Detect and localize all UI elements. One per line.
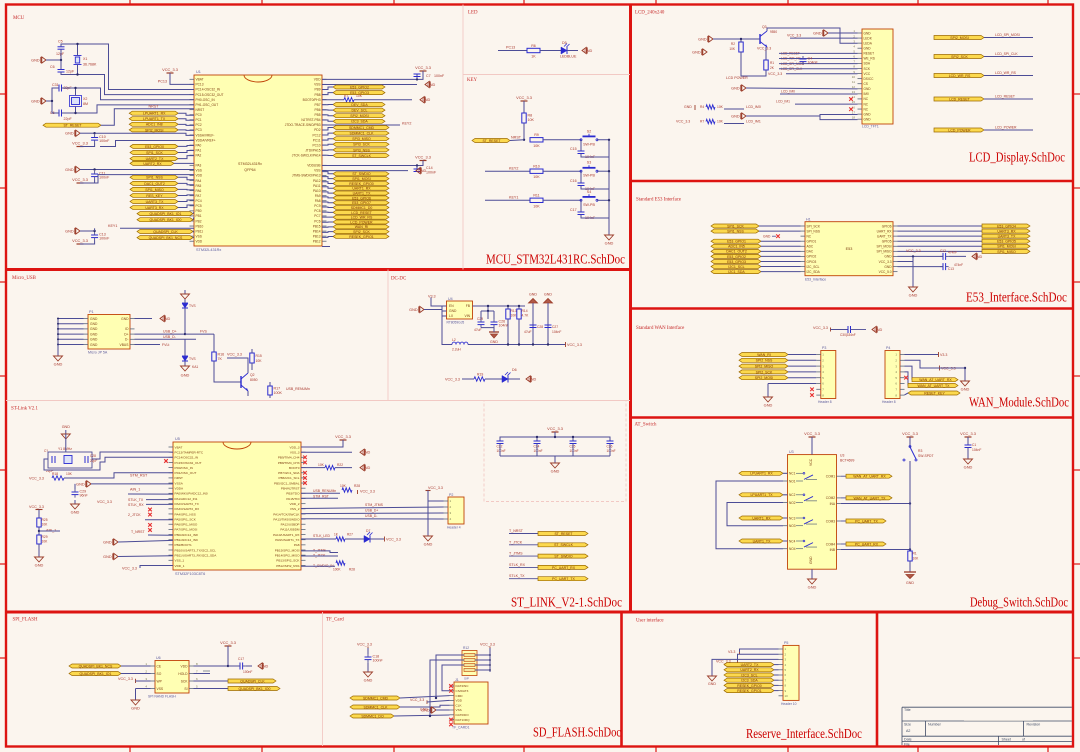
svg-text:Header 10: Header 10 — [781, 702, 797, 706]
svg-text:I2C_SDA: I2C_SDA — [807, 270, 821, 274]
svg-text:10K: 10K — [356, 94, 363, 98]
partition line bottom row divider 2 — [876, 612, 879, 746]
svg-text:PA2: PA2 — [196, 154, 202, 158]
svg-text:GND: GND — [906, 581, 914, 585]
GND bottom lcd — [742, 113, 746, 119]
svg-text:LCD_POWER: LCD_POWER — [995, 126, 1017, 130]
svg-text:NO3: NO3 — [789, 524, 796, 528]
svg-text:GND: GND — [90, 343, 98, 347]
svg-text:GPIO6: GPIO6 — [882, 224, 892, 228]
svg-text:SPI_SCK: SPI_SCK — [807, 224, 821, 228]
svg-text:SPI3_SCK: SPI3_SCK — [353, 143, 370, 147]
svg-text:PC13: PC13 — [158, 80, 167, 84]
svg-text:INB: INB — [830, 548, 835, 552]
svg-text:V3.3: V3.3 — [940, 353, 947, 357]
svg-text:GND: GND — [864, 117, 872, 121]
capacitor C26 104nF — [491, 321, 498, 323]
svg-text:C7: C7 — [426, 74, 431, 78]
ports clusterD — [333, 172, 389, 176]
svg-text:10K: 10K — [533, 144, 540, 148]
crystal Y1 group — [65, 430, 67, 434]
LED D7 stlink — [364, 536, 370, 543]
svg-text:ST_RESET: ST_RESET — [554, 532, 573, 536]
svg-text:SPI_FLASH: SPI_FLASH — [13, 618, 38, 623]
svg-text:GND: GND — [90, 317, 98, 321]
partition line bottom row divider 1 — [620, 612, 623, 746]
svg-text:GND: GND — [90, 332, 98, 336]
svg-text:LCD_IM0: LCD_IM0 — [746, 105, 761, 109]
svg-text:LEDA: LEDA — [864, 41, 873, 45]
power VCC_3.3 right mid — [420, 160, 427, 162]
WAN left ports — [739, 353, 788, 357]
svg-text:PC14-OSC32_IN: PC14-OSC32_IN — [196, 88, 221, 92]
svg-text:9550: 9550 — [770, 30, 777, 34]
svg-text:10K: 10K — [66, 472, 73, 476]
svg-text:SDMMC1_D0: SDMMC1_D0 — [351, 206, 373, 210]
border ruler ticks top — [129, 0, 131, 5]
svg-text:DC-DC: DC-DC — [391, 277, 406, 282]
svg-text:KEY2: KEY2 — [402, 122, 411, 126]
svg-text:VCC_3.3: VCC_3.3 — [757, 47, 771, 51]
svg-text:PC_UART_RX: PC_UART_RX — [855, 542, 879, 546]
svg-text:VSS: VSS — [314, 83, 320, 87]
svg-text:STLK_RX: STLK_RX — [509, 563, 526, 567]
dashed cap bank — [552, 431, 559, 433]
svg-text:NRST: NRST — [196, 108, 205, 112]
svg-text:SPI2_SCK: SPI2_SCK — [951, 55, 968, 59]
svg-text:GND: GND — [731, 115, 740, 119]
svg-text:COM1: COM1 — [826, 475, 835, 479]
svg-text:11: 11 — [852, 80, 855, 84]
svg-text:12pF: 12pF — [56, 52, 65, 56]
svg-text:VCC_3.3: VCC_3.3 — [122, 567, 137, 571]
port SPI2_SCK lcd — [934, 55, 984, 59]
svg-text:I2C3_SCL: I2C3_SCL — [741, 673, 757, 677]
svg-text:CMD: CMD — [456, 694, 464, 698]
svg-text:E53_GPIO2: E53_GPIO2 — [727, 255, 746, 259]
svg-text:GND: GND — [35, 563, 44, 568]
svg-text:NC4: NC4 — [789, 539, 796, 543]
svg-text:Q3: Q3 — [762, 25, 767, 29]
svg-text:NC3: NC3 — [789, 516, 796, 520]
svg-text:C15: C15 — [570, 147, 577, 151]
svg-text:STM_JTMS: STM_JTMS — [365, 503, 384, 507]
capacitor C29L — [74, 484, 76, 489]
switch chip U3 — [788, 455, 837, 570]
svg-text:I2C1_SDA: I2C1_SDA — [728, 270, 745, 274]
svg-text:VCC_3.3: VCC_3.3 — [220, 640, 236, 645]
svg-text:ADC1_IN5: ADC1_IN5 — [728, 245, 745, 249]
svg-text:GND: GND — [884, 265, 892, 269]
ports TF — [350, 696, 400, 700]
svg-text:PH0-OSC_IN: PH0-OSC_IN — [196, 98, 216, 102]
svg-text:E53_GPIO2: E53_GPIO2 — [350, 85, 369, 89]
svg-text:LCD_IM1: LCD_IM1 — [776, 100, 790, 104]
GND bottom U3 — [811, 569, 813, 575]
svg-text:GND: GND — [449, 309, 457, 313]
svg-text:USB_RENUMn: USB_RENUMn — [286, 387, 310, 391]
svg-text:PB7: PB7 — [314, 103, 320, 107]
svg-text:10K: 10K — [511, 314, 518, 318]
TVS diode D1 top — [182, 302, 188, 304]
svg-text:PA11/USBDM: PA11/USBDM — [280, 528, 300, 532]
svg-text:PC12: PC12 — [313, 133, 321, 137]
capacitor C11 — [91, 173, 98, 175]
svg-text:PC9: PC9 — [314, 204, 320, 208]
ground below D2 — [184, 361, 186, 366]
svg-text:STLK_RX: STLK_RX — [128, 503, 144, 507]
svg-text:GPIO2: GPIO2 — [807, 255, 817, 259]
svg-text:47uF: 47uF — [524, 330, 532, 334]
svg-text:8050: 8050 — [250, 378, 258, 382]
svg-text:T_JTCK: T_JTCK — [509, 540, 523, 544]
svg-text:PB10: PB10 — [196, 224, 204, 228]
port QUADSPI_CLK flash — [194, 680, 229, 682]
svg-text:SPI2_MISO: SPI2_MISO — [755, 365, 774, 369]
wire GND right — [135, 318, 153, 320]
svg-text:SPI1_SCK: SPI1_SCK — [727, 224, 744, 228]
svg-text:SCK: SCK — [181, 679, 189, 683]
svg-text:SCK: SCK — [864, 67, 871, 71]
svg-text:100nF: 100nF — [607, 449, 616, 453]
capacitor C6 — [58, 69, 65, 71]
TF card socket J1 — [454, 682, 488, 724]
svg-text:MCU: MCU — [13, 16, 25, 21]
svg-text:SPI_MOSI: SPI_MOSI — [876, 245, 891, 249]
svg-text:VCC_3.3: VCC_3.3 — [410, 698, 424, 702]
svg-text:PA3/USART2_RX: PA3/USART2_RX — [175, 507, 200, 511]
svg-text:GND: GND — [90, 338, 98, 342]
svg-text:GND: GND — [884, 255, 892, 259]
svg-text:VDD: VDD — [456, 699, 463, 703]
svg-text:Q2: Q2 — [250, 373, 255, 377]
svg-text:100nF: 100nF — [426, 171, 437, 175]
ground for X2 — [42, 98, 46, 104]
svg-text:PC15/OSC32_OUT: PC15/OSC32_OUT — [175, 461, 202, 465]
partition line LCD bottom — [631, 180, 1074, 182]
ground GND group3 — [76, 228, 80, 234]
svg-text:H1: H1 — [806, 218, 811, 222]
svg-text:E53_GPIO6: E53_GPIO6 — [352, 196, 371, 200]
svg-text:Revision: Revision — [1027, 723, 1041, 727]
svg-text:GND: GND — [181, 373, 190, 378]
port LPUART1_RX — [129, 111, 178, 115]
wires caps — [480, 311, 482, 319]
svg-text:R28: R28 — [349, 568, 355, 572]
svg-text:T_JTMS: T_JTMS — [509, 552, 523, 556]
svg-text:VCC_3.3: VCC_3.3 — [415, 65, 431, 70]
port ST_RESET KEY — [472, 139, 510, 143]
svg-text:GND: GND — [809, 556, 813, 564]
svg-text:DAC1_OUT2: DAC1_OUT2 — [726, 250, 747, 254]
svg-text:GND: GND — [692, 51, 701, 55]
svg-text:PA10: PA10 — [313, 189, 321, 193]
port QUADSPI_BK1_IO0 flash — [194, 688, 229, 690]
svg-text:ST_RESET: ST_RESET — [63, 124, 82, 128]
svg-text:100nF: 100nF — [99, 139, 110, 143]
svg-text:LCD_TFT1: LCD_TFT1 — [862, 125, 879, 129]
svg-text:WAN_AT_UART_TX: WAN_AT_UART_TX — [917, 384, 950, 388]
svg-text:UART2_RX: UART2_RX — [740, 668, 759, 672]
svg-text:CS/DAT3: CS/DAT3 — [456, 689, 469, 693]
svg-text:E53_Interface: E53_Interface — [805, 278, 826, 282]
E53 left ports — [711, 224, 759, 228]
svg-text:10K: 10K — [533, 204, 540, 208]
svg-text:100nF: 100nF — [497, 449, 506, 453]
svg-text:GND: GND — [427, 83, 436, 87]
svg-text:PB1: PB1 — [196, 214, 202, 218]
svg-text:GND: GND — [90, 322, 98, 326]
svg-text:ST_SWDIO: ST_SWDIO — [352, 172, 371, 176]
svg-text:RESET_KEY: RESET_KEY — [924, 391, 945, 395]
svg-text:ADC: ADC — [807, 245, 814, 249]
VCC_3.3 right top — [340, 439, 347, 441]
svg-text:VDDA: VDDA — [175, 487, 185, 491]
svg-text:SDMMC1_CLK: SDMMC1_CLK — [364, 705, 389, 709]
WAN right ports — [905, 366, 913, 380]
caps C12 C13 e53 — [927, 255, 943, 257]
svg-text:Date: Date — [904, 737, 912, 741]
svg-text:RESEK_GPIO1: RESEK_GPIO1 — [349, 235, 374, 239]
svg-text:DEV_SDA: DEV_SDA — [351, 103, 368, 107]
svg-text:10K: 10K — [256, 359, 263, 363]
svg-text:SDMMC1_CMD: SDMMC1_CMD — [363, 696, 389, 700]
svg-text:PB1/ADC12_IN9: PB1/ADC12_IN9 — [175, 538, 198, 542]
svg-text:QUADSPI_BK1_IO0: QUADSPI_BK1_IO0 — [150, 218, 182, 222]
svg-text:EN: EN — [449, 304, 454, 308]
svg-text:QUADSPI_BK1_IO0: QUADSPI_BK1_IO0 — [239, 687, 271, 691]
svg-text:PA11: PA11 — [313, 184, 321, 188]
svg-text:GND: GND — [65, 132, 74, 136]
watermark streak — [964, 720, 1033, 722]
svg-text:PC8: PC8 — [314, 209, 320, 213]
C1 cap right — [965, 436, 972, 438]
partition line vertical main — [629, 5, 632, 613]
svg-text:C17: C17 — [238, 657, 244, 661]
svg-text:LCD_WR_RS: LCD_WR_RS — [995, 71, 1017, 75]
svg-text:LED: LED — [468, 11, 478, 16]
svg-text:Micro JP 5A: Micro JP 5A — [88, 351, 108, 355]
partition line WAN bottom — [631, 416, 1074, 418]
svg-text:PB11: PB11 — [196, 229, 204, 233]
svg-text:JTCK-SWCLK/PA14: JTCK-SWCLK/PA14 — [292, 154, 321, 158]
svg-text:PB2/BOOT1: PB2/BOOT1 — [175, 543, 192, 547]
svg-text:BCT4699: BCT4699 — [840, 459, 854, 463]
wires TF bus vertical — [436, 655, 464, 698]
svg-text:1K: 1K — [531, 55, 536, 59]
svg-text:SDA: SDA — [864, 62, 871, 66]
wires X1 loop — [61, 44, 194, 90]
svg-text:T_NRST: T_NRST — [509, 529, 524, 533]
svg-text:U3: U3 — [789, 450, 794, 454]
svg-text:PA7: PA7 — [196, 194, 202, 198]
svg-text:VCC_3.3: VCC_3.3 — [360, 490, 375, 494]
svg-text:36.768K: 36.768K — [83, 63, 97, 67]
svg-text:PA2/USART2_TX: PA2/USART2_TX — [175, 502, 199, 506]
svg-text:D-: D- — [125, 338, 128, 342]
svg-text:NO4: NO4 — [789, 547, 796, 551]
svg-text:WE_RS: WE_RS — [864, 57, 875, 61]
svg-text:UART2_TX: UART2_TX — [146, 157, 164, 161]
svg-text:STLK_TX: STLK_TX — [128, 498, 144, 502]
svg-text:J1: J1 — [455, 678, 459, 682]
svg-text:LEDBLUE: LEDBLUE — [560, 55, 577, 59]
svg-text:U1: U1 — [196, 70, 201, 74]
svg-text:22pF: 22pF — [64, 117, 73, 121]
svg-text:474nF: 474nF — [954, 263, 963, 267]
svg-text:R16: R16 — [218, 353, 225, 357]
wire VSSA/VDDA — [95, 133, 194, 135]
svg-text:R3: R3 — [918, 449, 922, 453]
svg-text:TF_Card: TF_Card — [326, 618, 344, 623]
svg-text:BOOT0: BOOT0 — [289, 466, 300, 470]
connector P1 Micro USB — [88, 315, 130, 350]
pulldown R1 — [909, 550, 911, 552]
svg-text:QUADSPI_BK1_IO1: QUADSPI_BK1_IO1 — [80, 672, 112, 676]
svg-text:QUADSPI_BK1_NCS: QUADSPI_BK1_NCS — [79, 664, 113, 668]
inductor L2 — [442, 316, 452, 345]
svg-text:GND: GND — [961, 387, 970, 392]
svg-text:VCC_3.3: VCC_3.3 — [906, 249, 921, 253]
svg-text:LCD_SPI_CLK: LCD_SPI_CLK — [995, 52, 1018, 56]
svg-text:P1: P1 — [89, 310, 94, 314]
wires Y1 to chip — [92, 452, 173, 459]
svg-text:R1: R1 — [770, 61, 774, 65]
svg-text:C17: C17 — [570, 208, 577, 212]
svg-text:SPI NAND FLASH: SPI NAND FLASH — [148, 695, 176, 699]
svg-text:SPI3_NSS: SPI3_NSS — [353, 148, 370, 152]
port LCD_POWER lcd — [934, 128, 984, 132]
svg-text:R28: R28 — [354, 484, 360, 488]
svg-text:VCC_3.3: VCC_3.3 — [227, 353, 242, 357]
port E53_GPIO0 — [130, 144, 178, 148]
svg-text:10K: 10K — [717, 105, 724, 109]
svg-text:GND: GND — [708, 682, 716, 686]
svg-text:DSICC: DSICC — [864, 77, 875, 81]
svg-text:ST_SWDIO: ST_SWDIO — [554, 555, 573, 559]
debug crossover wires — [716, 481, 783, 549]
svg-text:AIN_1: AIN_1 — [130, 488, 140, 492]
svg-text:VCC_3.3: VCC_3.3 — [118, 677, 133, 681]
svg-text:GND: GND — [131, 706, 140, 711]
svg-text:VCC_3.3: VCC_3.3 — [676, 120, 690, 124]
svg-text:V3.3: V3.3 — [728, 650, 735, 654]
svg-text:JTDO-TRACE-SWO/PB3: JTDO-TRACE-SWO/PB3 — [285, 123, 321, 127]
svg-text:PB0: PB0 — [196, 209, 202, 213]
ports clusterB — [333, 103, 385, 107]
svg-text:PA7/SPI1_MOSI: PA7/SPI1_MOSI — [175, 528, 198, 532]
svg-text:VCC_3.3: VCC_3.3 — [567, 343, 582, 347]
svg-text:UART_RX: UART_RX — [877, 229, 893, 233]
svg-text:2.2uH: 2.2uH — [452, 348, 461, 352]
svg-text:U4: U4 — [448, 297, 453, 301]
svg-text:R4: R4 — [700, 105, 704, 109]
svg-text:SPI1_NSS: SPI1_NSS — [146, 176, 163, 180]
svg-text:UART3_RX: UART3_RX — [997, 229, 1016, 233]
svg-text:PC_UART_TX: PC_UART_TX — [855, 519, 878, 523]
svg-text:GND: GND — [71, 510, 80, 515]
svg-text:LPUART1_TX: LPUART1_TX — [750, 493, 773, 497]
svg-text:UART2_RX: UART2_RX — [143, 162, 162, 166]
svg-text:GND: GND — [528, 378, 537, 382]
svg-text:PC14/OSC32_IN: PC14/OSC32_IN — [175, 456, 199, 460]
capacitor C15 — [580, 140, 582, 151]
svg-text:GND: GND — [529, 293, 537, 297]
svg-text:Size: Size — [904, 723, 911, 727]
svg-text:FVS: FVS — [200, 330, 207, 334]
pale divider USB/STLINK — [6, 400, 630, 402]
svg-text:GND: GND — [763, 235, 771, 239]
svg-text:10K: 10K — [717, 120, 724, 124]
svg-text:C27: C27 — [552, 325, 558, 329]
svg-text:7K: 7K — [218, 357, 223, 361]
svg-text:A2: A2 — [906, 729, 910, 733]
svg-text:GND: GND — [909, 293, 918, 298]
svg-text:VCC_3.3: VCC_3.3 — [480, 643, 495, 647]
resistor R13 — [506, 309, 510, 319]
svg-text:PA3: PA3 — [196, 164, 202, 168]
svg-text:100K: 100K — [333, 568, 341, 572]
svg-text:PB15/SPI2_MOSI: PB15/SPI2_MOSI — [275, 548, 300, 552]
svg-text:ST_LINK_V2-1.SchDoc: ST_LINK_V2-1.SchDoc — [511, 595, 622, 610]
svg-text:PB4/NJTRST: PB4/NJTRST — [281, 487, 300, 491]
svg-text:VDD: VDD — [196, 240, 203, 244]
svg-text:VCC_3.3: VCC_3.3 — [813, 326, 828, 330]
svg-text:C12: C12 — [940, 249, 946, 253]
svg-text:NC: NC — [864, 102, 869, 106]
svg-text:SPI2_NSS: SPI2_NSS — [756, 359, 773, 363]
port LPUART1_TX — [129, 117, 178, 121]
svg-text:Sheet: Sheet — [1002, 737, 1011, 741]
svg-text:QUADSPI_CLK: QUADSPI_CLK — [240, 679, 265, 683]
svg-text:PB5/I2C1_SMBAL: PB5/I2C1_SMBAL — [274, 481, 300, 485]
WAN right nets — [905, 354, 939, 356]
svg-text:USB_D+: USB_D+ — [365, 509, 378, 513]
svg-text:VCC_3.3: VCC_3.3 — [386, 538, 401, 542]
svg-text:E53_Interface.SchDoc: E53_Interface.SchDoc — [966, 290, 1067, 305]
svg-text:SPI2_MOSI: SPI2_MOSI — [145, 128, 164, 132]
svg-text:GND: GND — [764, 403, 773, 408]
svg-text:L2: L2 — [452, 338, 456, 342]
title block — [902, 706, 1072, 708]
GND CS — [742, 85, 746, 91]
svg-text:47uF: 47uF — [474, 328, 482, 332]
svg-text:VDD: VDD — [196, 174, 203, 178]
svg-text:GND: GND — [551, 469, 560, 474]
svg-text:GND: GND — [362, 451, 371, 455]
svg-text:R7: R7 — [344, 94, 348, 98]
svg-text:R14: R14 — [522, 309, 528, 313]
svg-text:T_NRST: T_NRST — [131, 530, 145, 534]
pullup resistor pack R12 — [462, 651, 477, 676]
svg-text:GND: GND — [31, 100, 40, 104]
svg-text:U6: U6 — [156, 656, 161, 660]
ground DCDC left — [420, 306, 424, 312]
svg-text:NC1: NC1 — [789, 472, 796, 476]
svg-text:RESET: RESET — [864, 52, 875, 56]
svg-text:22pF: 22pF — [90, 459, 97, 463]
resistor R7 BOOT0 — [322, 99, 344, 101]
svg-text:NO1: NO1 — [789, 479, 796, 483]
power VCC_3.3 KEY — [521, 100, 528, 102]
wire FB loop top — [473, 305, 526, 307]
port QUADSPI_CLK — [137, 230, 193, 234]
capacitor C25 bank — [570, 440, 577, 442]
wires X2 loop — [46, 88, 59, 101]
svg-text:SW-PB: SW-PB — [583, 203, 595, 207]
svg-text:100nF: 100nF — [373, 659, 384, 663]
svg-text:474nF: 474nF — [948, 251, 957, 255]
